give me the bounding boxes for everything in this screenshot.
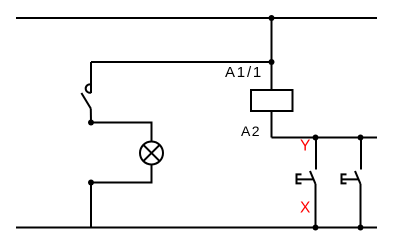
contact K1.2 (manual operated, NO) — [342, 138, 362, 228]
node contact 1 feed junction — [313, 135, 319, 141]
svg-text:A2: A2 — [241, 123, 261, 139]
svg-text:A1/1: A1/1 — [225, 64, 263, 81]
node bottom rail junction 1 — [313, 225, 319, 231]
wire top supply rail — [16, 17, 377, 19]
wire switch to lamp — [91, 123, 152, 142]
lamp E1 — [140, 142, 163, 165]
wire switch feed horizontal — [91, 61, 272, 63]
node junction on top rail — [269, 15, 275, 21]
relay coil K1 — [251, 90, 293, 111]
node bottom rail junction 2 — [358, 225, 364, 231]
svg-text:X: X — [300, 199, 311, 216]
wire contact feed rail — [272, 137, 378, 139]
node switch output junction — [88, 120, 94, 126]
node junction of switch feed wire — [269, 59, 275, 65]
switch S1 (make contact) — [81, 62, 91, 123]
wire coil A2 to contact rail — [271, 111, 273, 138]
svg-text:Y: Y — [300, 138, 310, 155]
wire vertical from top rail to coil A1 — [271, 18, 273, 90]
contact K1.1 (manual operated, NO) — [297, 138, 317, 228]
node lamp return junction — [88, 180, 94, 186]
node contact 2 feed junction — [358, 135, 364, 141]
wire bottom return rail — [16, 227, 377, 229]
wire lamp return to bottom rail — [90, 183, 92, 228]
wire lamp return — [91, 165, 152, 183]
